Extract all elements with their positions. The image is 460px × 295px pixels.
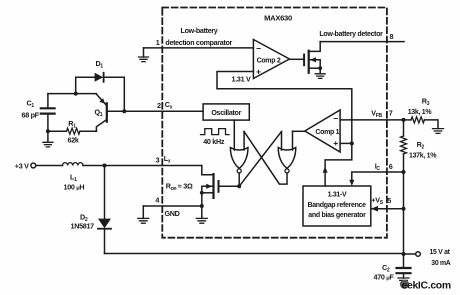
- label +Vs pin 5: [371, 195, 391, 206]
- label 15V at 30mA: [430, 249, 451, 267]
- output terminal 15V: [404, 252, 421, 257]
- svg-text:+: +: [256, 66, 261, 76]
- label Q1: [95, 108, 103, 119]
- svg-text:1.31 V: 1.31 V: [232, 74, 251, 83]
- wire +3V to L1: [36, 165, 63, 167]
- label R2 137k 1%: [409, 140, 437, 159]
- NOR gate 2: [278, 131, 296, 173]
- label C1 68pF: [22, 99, 40, 120]
- svg-text:Ron ≈ 3Ω: Ron ≈ 3Ω: [166, 181, 193, 192]
- svg-text:and bias generator: and bias generator: [308, 212, 366, 219]
- svg-text:MAX630: MAX630: [264, 14, 292, 23]
- ground at pin 4: [138, 218, 149, 223]
- ground at power MOSFET: [196, 218, 207, 223]
- wire cross-coupling NOR1 output to NOR2 input: [239, 132, 281, 187]
- +3V input terminal: [31, 163, 36, 168]
- svg-text:Comp 1: Comp 1: [315, 129, 339, 136]
- svg-text:Bandgap reference: Bandgap reference: [307, 202, 366, 209]
- wire pin 5 +Vs into bandgap: [371, 206, 406, 212]
- ground at C2: [398, 278, 409, 283]
- svg-text:C1: C1: [27, 99, 35, 110]
- ground at R3: [433, 129, 444, 134]
- label Ic pin 6: [375, 162, 393, 173]
- svg-text:+VS: +VS: [371, 195, 383, 206]
- svg-text:5: 5: [387, 196, 391, 205]
- label R1 62k: [68, 119, 79, 145]
- diode D2: [98, 166, 111, 254]
- label Low-battery detector: [319, 31, 383, 38]
- wire oscillator output to flip-flop: [233, 120, 235, 150]
- svg-text:3: 3: [156, 156, 160, 165]
- wire L1 to pin 3 Lx: [83, 165, 202, 167]
- svg-text:Low-battery detector: Low-battery detector: [319, 31, 383, 38]
- NOR gate 1: [230, 132, 248, 173]
- node VFB R3 R2 junction: [402, 118, 406, 122]
- ground at C1: [43, 131, 53, 147]
- op-amp Comp 1: [305, 110, 340, 152]
- label Oscillator: [211, 109, 241, 117]
- label D2 1N5817: [71, 212, 95, 230]
- svg-text:100 μH: 100 μH: [64, 183, 85, 192]
- wire pin 4: [143, 206, 202, 218]
- label 1.31 V: [232, 74, 251, 83]
- transistor power MOSFET: [200, 166, 239, 198]
- wire bottom rail: [105, 253, 404, 255]
- wire Comp1 plus to bandgap output: [323, 143, 352, 186]
- inductor L1: [63, 163, 83, 166]
- svg-text:470 μF: 470 μF: [374, 273, 395, 282]
- svg-text:1N5817: 1N5817: [71, 222, 95, 231]
- svg-text:detection comparator: detection comparator: [165, 39, 232, 47]
- svg-text:Q1: Q1: [95, 108, 103, 119]
- label Comp 1: [315, 113, 339, 148]
- svg-text:6: 6: [389, 162, 393, 171]
- capacitor C1: [41, 94, 55, 132]
- svg-text:−: −: [333, 113, 338, 123]
- wire C1 top to node: [48, 93, 76, 95]
- wire NOR2 input from Comp1 output: [293, 130, 305, 132]
- svg-text:1: 1: [156, 38, 160, 47]
- svg-text:137k, 1%: 137k, 1%: [409, 153, 437, 160]
- label bandgap text: [307, 191, 366, 219]
- svg-text:Cx: Cx: [165, 100, 173, 111]
- svg-text:40 kHz: 40 kHz: [203, 137, 225, 146]
- svg-text:IC: IC: [375, 162, 381, 173]
- label Low-battery detection comparator: [165, 27, 232, 47]
- ground at pin 1 wire: [139, 48, 149, 62]
- svg-text:15 V at: 15 V at: [430, 249, 451, 256]
- label Ron = 3 ohm: [166, 181, 193, 192]
- wire Comp1 minus input VFB pin 7: [340, 119, 403, 121]
- oscillator block: [203, 104, 249, 120]
- pin 3 label Lx: [156, 154, 171, 165]
- wire pin 6 Ic to bandgap: [349, 172, 403, 186]
- svg-text:GND: GND: [165, 209, 180, 218]
- diode D1: [76, 73, 125, 112]
- label R3 13k 1%: [408, 96, 433, 116]
- transistor low-battery detector MOSFET: [304, 42, 322, 73]
- svg-text:2: 2: [157, 101, 161, 110]
- capacitor C2: [397, 254, 411, 278]
- svg-text:4: 4: [155, 196, 159, 205]
- pin 2 label Cx: [157, 100, 173, 111]
- label +3 V: [15, 161, 29, 170]
- node Q1 base to pin 2: [122, 109, 126, 113]
- svg-text:13k, 1%: 13k, 1%: [408, 109, 433, 116]
- svg-text:Comp 2: Comp 2: [257, 57, 281, 64]
- svg-text:eekIC.com: eekIC.com: [402, 281, 451, 292]
- resistor R1: [48, 128, 97, 134]
- svg-text:Low-battery: Low-battery: [181, 27, 218, 35]
- svg-text:R3: R3: [422, 96, 430, 107]
- svg-text:R2: R2: [417, 140, 425, 151]
- svg-text:Lx: Lx: [164, 154, 171, 165]
- node C1 bottom junction: [46, 129, 50, 133]
- svg-text:62k: 62k: [68, 135, 79, 144]
- wire output column: [403, 172, 405, 254]
- svg-text:68 pF: 68 pF: [22, 110, 40, 119]
- pin 4 label GND: [155, 196, 179, 218]
- svg-text:L1: L1: [70, 172, 77, 183]
- svg-text:+: +: [333, 138, 338, 148]
- wire Comp1 plus input: [340, 141, 354, 145]
- wire Comp2 output to detector MOSFET gate: [290, 58, 304, 60]
- svg-text:Oscillator: Oscillator: [211, 109, 241, 117]
- svg-text:1.31-V: 1.31-V: [328, 191, 347, 198]
- bandgap reference block: [303, 186, 371, 226]
- pin 8 label: [390, 32, 394, 41]
- node pin 6 junction: [402, 170, 406, 174]
- svg-text:8: 8: [390, 32, 394, 41]
- node Q1 emitter / D1 anode: [74, 92, 78, 96]
- svg-text:VFB: VFB: [371, 109, 382, 120]
- wire 1.31V reference to Comp2 plus input: [217, 72, 352, 144]
- svg-text:30 mA: 30 mA: [431, 260, 451, 267]
- svg-text:+3 V: +3 V: [15, 161, 29, 170]
- node D2 tap: [103, 164, 107, 168]
- label MAX630: [264, 14, 292, 23]
- label L1 100uH: [64, 172, 85, 191]
- watermark eekIC.com: [400, 280, 451, 292]
- square wave symbol: [201, 129, 229, 135]
- op-amp Comp 2: [253, 40, 289, 79]
- svg-text:D1: D1: [96, 59, 104, 70]
- transistor Q1 PNP: [76, 94, 125, 132]
- label Comp 2: [256, 43, 281, 76]
- wire MOSFET source to pin4 ground rail: [200, 193, 204, 219]
- label C2 470uF: [374, 263, 395, 282]
- svg-text:7: 7: [389, 109, 393, 118]
- wire pin 8 low-battery detector output: [320, 41, 404, 43]
- wire pin 2 Cx to oscillator: [124, 110, 203, 112]
- svg-text:R1: R1: [68, 119, 76, 130]
- label D1: [96, 59, 104, 70]
- label 40 kHz: [203, 137, 225, 146]
- pin 1 label: [156, 38, 160, 47]
- wire NOR1 output node: [237, 173, 241, 188]
- svg-text:−: −: [256, 43, 261, 53]
- ground at detector MOSFET source: [315, 68, 325, 78]
- label VFB pin 7: [371, 109, 393, 120]
- resistor R2: [401, 120, 407, 172]
- IC boundary MAX630 dashed box: [162, 8, 387, 238]
- wire cross-coupling NOR2 output to NOR1 input: [244, 132, 287, 185]
- wire pin1 to Comp2 minus input: [144, 47, 254, 49]
- resistor R3: [404, 117, 439, 129]
- node output junction: [402, 252, 406, 256]
